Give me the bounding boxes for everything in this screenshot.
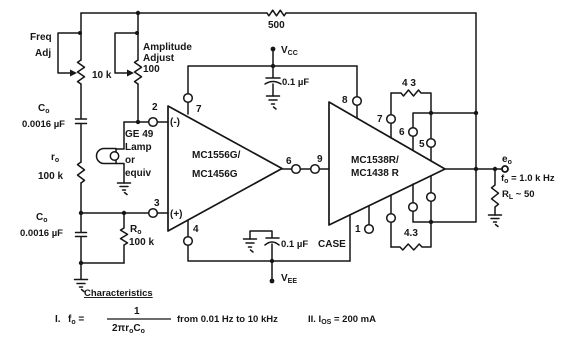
pin 4 circle U2 — [427, 193, 436, 202]
wire pin2 U2 to 4.3 bottom — [390, 195, 392, 247]
svg-text:2πroCo: 2πroCo — [112, 323, 145, 335]
svg-text:8: 8 — [342, 95, 348, 106]
wire pin4 to Vee rail — [188, 220, 350, 261]
svg-text:Co: Co — [38, 103, 50, 115]
svg-text:MC1538R/: MC1538R/ — [351, 155, 399, 166]
svg-text:Co: Co — [36, 212, 48, 224]
svg-text:GE 49: GE 49 — [125, 129, 154, 140]
svg-text:1: 1 — [355, 224, 361, 235]
terminal Vcc — [272, 50, 274, 66]
svg-text:4: 4 — [193, 224, 199, 235]
pin 9 circle U2 input — [311, 165, 320, 174]
pin 6 circle U1 output — [292, 165, 301, 174]
svg-text:Amplitude: Amplitude — [143, 42, 192, 53]
wire pin5 U2 — [430, 113, 432, 161]
potentiometer Freq Adj 10k — [78, 60, 85, 84]
wire output — [445, 168, 502, 170]
node junction pin3 rail left — [79, 211, 83, 215]
svg-text:5: 5 — [419, 139, 425, 150]
wire CASE to Vee rail — [349, 215, 351, 261]
terminal output eo — [502, 166, 508, 172]
wire pin7 U2 — [390, 93, 392, 138]
capacitor 0.1uF Vcc — [265, 66, 281, 96]
svg-text:equiv: equiv — [125, 168, 152, 179]
wire pin6 U2 — [413, 113, 431, 150]
resistor 4.3 bottom — [391, 222, 431, 250]
op-amp U2 MC1538R triangle — [329, 102, 445, 225]
pin 5 circle U2 — [427, 139, 436, 148]
wire pin3 input — [81, 212, 168, 214]
svg-text:6: 6 — [399, 127, 405, 138]
lamp GE49 — [97, 149, 116, 164]
svg-text:Adj: Adj — [35, 48, 51, 59]
svg-text:VEE: VEE — [281, 273, 297, 285]
pin 4 circle U1 — [184, 237, 193, 246]
ground RL — [489, 215, 502, 227]
pin 2 circle U2 — [387, 214, 396, 223]
svg-text:7: 7 — [377, 114, 383, 125]
node junction bottom-left — [79, 261, 83, 265]
resistor RL 50 — [492, 169, 499, 215]
svg-text:RL ~ 50: RL ~ 50 — [502, 189, 535, 201]
svg-text:Ro: Ro — [130, 224, 142, 236]
svg-text:VCC: VCC — [281, 45, 298, 57]
svg-text:MC1438 R: MC1438 R — [351, 168, 400, 179]
wiper Amplitude Adjust — [115, 33, 138, 73]
svg-text:9: 9 — [317, 154, 323, 165]
node junction Ro top — [122, 211, 126, 215]
svg-text:ro: ro — [51, 152, 59, 164]
svg-text:0.0016 µF: 0.0016 µF — [20, 228, 63, 239]
ground Vee cap — [244, 239, 257, 252]
svg-text:Adjust: Adjust — [143, 53, 175, 64]
resistor 4.3 top — [391, 90, 431, 113]
wire lamp branch — [116, 122, 124, 183]
pin 7 circle U1 — [184, 94, 193, 103]
wiper Freq Adj — [58, 33, 81, 73]
svg-text:10 k: 10 k — [92, 70, 112, 81]
potentiometer Amplitude Adjust 100 — [135, 60, 142, 84]
svg-text:500: 500 — [268, 20, 285, 31]
svg-text:100: 100 — [143, 64, 160, 75]
node junction top amplitude — [136, 11, 140, 15]
svg-text:Freq: Freq — [30, 32, 52, 43]
node junction bottom bus — [429, 220, 433, 224]
svg-text:0.1 µF: 0.1 µF — [281, 239, 308, 250]
wire pin4 U2 — [430, 176, 432, 222]
svg-text:Characteristics: Characteristics — [84, 288, 153, 299]
pin 3 circle U2 — [409, 203, 418, 212]
svg-text:4.3: 4.3 — [404, 228, 418, 239]
svg-text:fo = 1.0 k Hz: fo = 1.0 k Hz — [501, 173, 555, 185]
pin 8 circle U2 — [353, 97, 362, 106]
node junction Vcc tap — [271, 64, 275, 68]
svg-text:(+): (+) — [170, 209, 183, 220]
ground left rail — [75, 280, 88, 292]
pin 2 circle — [149, 118, 158, 127]
wire pin2 input — [124, 121, 168, 123]
wire pin8 U2 — [356, 66, 358, 118]
svg-text:CASE: CASE — [318, 239, 346, 250]
node junction 43t right — [429, 111, 433, 115]
pin 3 circle — [149, 209, 158, 218]
svg-text:4 3: 4 3 — [402, 78, 416, 89]
node junction RL tap — [493, 167, 497, 171]
resistor 500 — [267, 10, 286, 16]
capacitor Co upper 0.0016uF — [76, 119, 87, 124]
node junction feedback top — [474, 111, 478, 115]
svg-text:3: 3 — [154, 198, 160, 209]
svg-text:6: 6 — [286, 156, 292, 167]
capacitor Co lower 0.0016uF — [76, 233, 87, 237]
resistor Ro 100k — [121, 213, 128, 263]
wire pin7 to Vcc rail — [188, 66, 357, 114]
pin 6 circle U2 — [409, 128, 418, 137]
node junction Vee tap — [270, 259, 274, 263]
svg-text:from 0.01 Hz to 10 kHz: from 0.01 Hz to 10 kHz — [177, 314, 278, 325]
svg-text:100 k: 100 k — [38, 171, 63, 182]
op-amp U1 MC1556G triangle — [168, 106, 282, 231]
terminal Vee — [271, 261, 273, 281]
svg-text:I.: I. — [55, 314, 61, 325]
resistor ro 100k — [78, 162, 85, 183]
svg-text:MC1456G: MC1456G — [192, 169, 238, 180]
svg-text:(-): (-) — [170, 117, 180, 128]
svg-text:7: 7 — [196, 104, 202, 115]
svg-text:fo =: fo = — [68, 314, 84, 326]
node junction feedback output — [474, 167, 478, 171]
capacitor 0.1uF Vee — [250, 231, 279, 261]
svg-text:eo: eo — [502, 154, 512, 166]
svg-text:Lamp: Lamp — [125, 142, 152, 153]
ground lamp — [118, 183, 131, 195]
wire amplitude branch — [137, 13, 139, 122]
wire U1 output to U2 input — [282, 168, 329, 170]
pin 1 stub U2 — [368, 206, 370, 225]
node junction amplitude-pin2 — [136, 120, 140, 124]
pin 1 circle U2 — [365, 225, 374, 234]
svg-text:MC1556G/: MC1556G/ — [192, 150, 241, 161]
wire left vertical rail — [80, 13, 82, 263]
pin 7 circle U2 — [387, 115, 396, 124]
wire junction top right — [431, 112, 476, 114]
wire top feedback rail — [81, 12, 476, 14]
svg-text:or: or — [125, 155, 135, 166]
svg-text:0.0016 µF: 0.0016 µF — [22, 119, 65, 130]
wire bottom-left return — [81, 263, 124, 279]
svg-text:100 k: 100 k — [129, 237, 154, 248]
svg-text:1: 1 — [134, 306, 140, 317]
wire feedback vertical — [431, 13, 476, 222]
svg-text:II. IOS = 200 mA: II. IOS = 200 mA — [308, 314, 376, 326]
ground Vcc cap — [267, 96, 280, 109]
svg-text:2: 2 — [152, 102, 158, 113]
svg-text:0.1 µF: 0.1 µF — [282, 77, 309, 88]
wire pin3 U2 — [413, 184, 431, 222]
